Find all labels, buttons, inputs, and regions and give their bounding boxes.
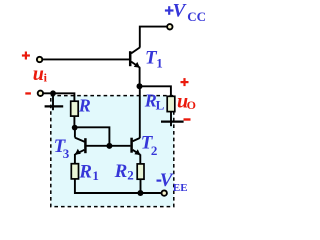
svg-text:R: R — [78, 96, 91, 116]
label RL — [144, 90, 165, 112]
label uo — [177, 90, 196, 112]
transistor T2 — [130, 138, 133, 153]
svg-text:O: O — [187, 98, 196, 112]
resistor R2 — [137, 164, 144, 179]
wire: T2 collector diagonal — [133, 138, 140, 141]
label -Vee — [157, 170, 188, 194]
wire: R1 to rail — [75, 179, 161, 193]
label + (input) — [22, 52, 30, 60]
svg-text:R: R — [78, 162, 92, 183]
label ui — [33, 63, 48, 85]
label T1 — [145, 47, 163, 70]
ground (output) — [161, 112, 184, 127]
label T3 — [54, 136, 70, 161]
svg-text:3: 3 — [63, 146, 70, 161]
ground (input) — [45, 93, 64, 110]
terminal -Vee — [162, 190, 167, 195]
terminal +Vcc — [167, 24, 172, 29]
wire: node to RL — [140, 86, 171, 96]
wire: +Vcc lead down to T1 collector — [140, 27, 167, 48]
node: rail/R2 — [137, 190, 143, 196]
svg-text:i: i — [44, 70, 48, 84]
node: bases — [106, 143, 112, 149]
svg-text:2: 2 — [151, 143, 158, 158]
svg-text:CC: CC — [187, 9, 206, 24]
svg-text:V: V — [173, 1, 187, 22]
wire: T3 collector — [75, 128, 85, 142]
label - (output) — [184, 118, 191, 120]
wire: input - to resistor R — [43, 93, 74, 101]
svg-text:1: 1 — [92, 168, 99, 183]
label T2 — [141, 133, 158, 159]
terminal input + — [37, 57, 42, 62]
wire: loop from node A to base node — [75, 127, 110, 146]
wire: T2 emitter — [133, 150, 141, 164]
svg-text:1: 1 — [156, 55, 163, 70]
transistor T1 — [130, 47, 140, 67]
svg-text:2: 2 — [127, 168, 134, 183]
wire: T3 emitter — [75, 150, 85, 164]
wire: R2 to rail — [140, 179, 142, 193]
arrow T1 emitter — [134, 62, 140, 68]
wire: input + to T1 base — [43, 58, 130, 60]
svg-text:V: V — [160, 170, 174, 191]
node: T1 emitter / T2 collector / RL — [137, 83, 143, 89]
dashed amplifier box — [51, 96, 174, 207]
resistor R1 — [71, 164, 78, 179]
svg-text:R: R — [114, 161, 128, 182]
arrow T3 emitter — [75, 149, 81, 155]
wire: base rail T3-T2 — [87, 145, 131, 147]
transistor T3 — [84, 138, 87, 153]
label R2 — [114, 161, 134, 182]
label +Vcc — [165, 1, 206, 24]
label R1 — [78, 162, 99, 183]
label + (output) — [181, 78, 189, 86]
wire: R bottom to node A — [73, 116, 75, 127]
terminal input - — [38, 91, 43, 96]
wire: T1 emitter down to node — [139, 67, 141, 86]
svg-text:u: u — [33, 63, 44, 85]
wire: node down to T2 collector — [139, 86, 141, 138]
node A: R / T3 collector / mirror loop — [72, 125, 78, 131]
svg-text:L: L — [156, 98, 165, 113]
arrow T2 emitter — [134, 149, 140, 155]
node: ground junction — [50, 90, 56, 96]
svg-text:EE: EE — [173, 182, 188, 194]
resistor R — [71, 101, 79, 116]
label - (input) — [25, 92, 31, 94]
resistor RL — [167, 96, 175, 111]
